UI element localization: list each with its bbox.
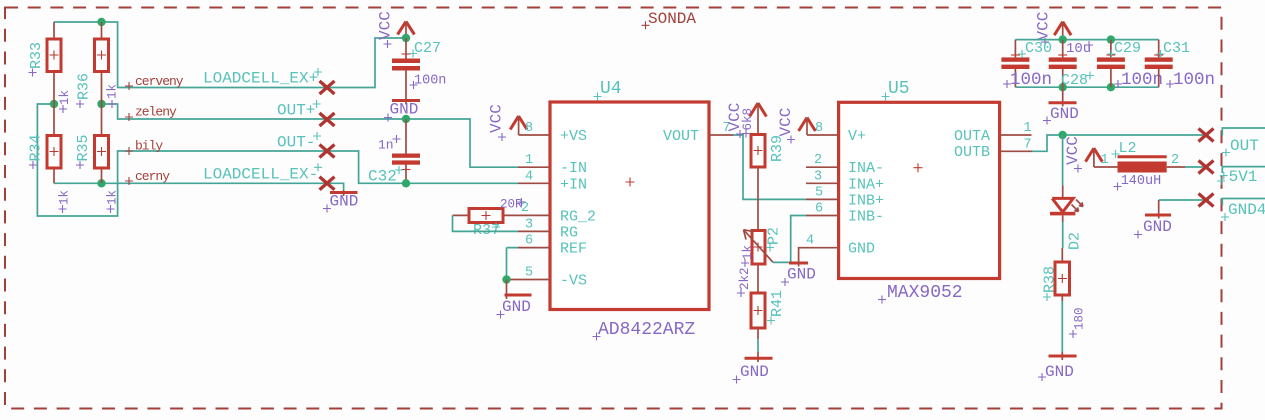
svg-text:cerveny: cerveny	[135, 74, 184, 89]
svg-text:R39: R39	[769, 135, 786, 162]
svg-text:-VS: -VS	[560, 273, 587, 290]
pin 5 -VS	[507, 266, 588, 290]
ground for GND4 net	[1134, 200, 1172, 239]
capacitor C28 10u	[1049, 40, 1094, 89]
svg-text:OUT: OUT	[1230, 137, 1259, 155]
wire: D2 to R38	[1062, 222, 1064, 248]
node: bottom rail C29 junction	[1107, 83, 1115, 91]
wire: left mid node to bily row	[37, 104, 327, 216]
svg-text:3: 3	[525, 217, 533, 232]
svg-text:V+: V+	[848, 128, 866, 145]
svg-text:RG: RG	[560, 225, 578, 242]
node: C32 top on OUT+ wire	[402, 115, 410, 123]
svg-text:U4: U4	[600, 79, 622, 99]
svg-text:5: 5	[525, 266, 533, 281]
resistor R36	[76, 22, 120, 108]
capacitor C30 100n	[1001, 40, 1052, 90]
svg-text:6: 6	[525, 234, 533, 249]
svg-text:-IN: -IN	[560, 160, 587, 177]
wire: cerveny X to VCC node of C27	[327, 38, 406, 88]
svg-text:C32: C32	[368, 168, 397, 186]
svg-text:2: 2	[814, 153, 822, 168]
ground below U4	[497, 280, 532, 319]
pin: P2 bottom to R41 top	[757, 264, 759, 293]
capacitor C29 100n	[1097, 40, 1163, 90]
pin 8 V+	[807, 121, 866, 145]
pin 5 INB+	[806, 185, 884, 209]
node: junction right mid	[97, 100, 105, 108]
svg-text:+VS: +VS	[560, 128, 587, 145]
wire: bily OUT- continues to U4 +IN	[327, 151, 518, 183]
svg-text:1: 1	[1101, 153, 1109, 168]
svg-text:L2: L2	[1119, 140, 1137, 157]
pin 4 +IN	[518, 169, 587, 193]
svg-text:GND: GND	[740, 363, 769, 381]
svg-text:R36: R36	[76, 73, 93, 100]
pin 8 +VS	[519, 121, 587, 145]
svg-text:1k: 1k	[58, 90, 72, 105]
node: junction left mid	[50, 100, 58, 108]
svg-text:LOADCELL_EX+: LOADCELL_EX+	[203, 70, 318, 88]
svg-text:3: 3	[814, 169, 822, 184]
svg-text:100n: 100n	[1173, 70, 1215, 90]
wire: bank top rail	[1015, 39, 1158, 41]
VCC supply above bank	[1035, 12, 1072, 46]
svg-text:VCC: VCC	[377, 11, 395, 40]
svg-text:C29: C29	[1114, 40, 1141, 57]
VCC supply above R39	[726, 103, 766, 138]
svg-text:VCC: VCC	[1035, 12, 1053, 41]
ground for cerny net	[323, 190, 358, 213]
svg-text:1k: 1k	[106, 190, 120, 205]
svg-text:VCC: VCC	[488, 104, 506, 133]
node: C32 bottom on OUT- wire	[402, 179, 410, 187]
net label OUT-	[277, 132, 321, 152]
resistor R34	[28, 104, 72, 213]
capacitor C27 100n	[392, 38, 446, 101]
LED D2	[1050, 186, 1084, 251]
node: bottom rail C28 junction	[1059, 83, 1067, 91]
svg-text:OUT-: OUT-	[277, 134, 315, 152]
svg-text:GND4: GND4	[1228, 201, 1265, 219]
label cerny	[125, 169, 170, 185]
svg-text:INB-: INB-	[848, 209, 884, 226]
svg-text:+IN: +IN	[560, 176, 587, 193]
pin 6 INB-	[806, 202, 884, 226]
svg-text:VCC: VCC	[777, 108, 795, 137]
pin: R39 bottom to P2 top	[757, 167, 759, 231]
wire: cerny X to GND	[327, 183, 344, 190]
svg-text:100n: 100n	[414, 74, 446, 89]
svg-text:REF: REF	[560, 241, 587, 258]
net label +5V1 with flag	[1217, 167, 1265, 186]
wire: REF/-VS to ground	[507, 248, 519, 280]
svg-text:C30: C30	[1025, 40, 1052, 57]
svg-text:RG_2: RG_2	[560, 209, 596, 226]
resistor R39 6k8	[741, 108, 786, 167]
SONDA title	[642, 10, 697, 29]
svg-text:1k: 1k	[58, 190, 72, 205]
svg-text:R38: R38	[1042, 266, 1059, 293]
pin 2 RG_2	[503, 201, 596, 226]
VCC label at output node	[1064, 136, 1082, 172]
VCC supply at U4 +VS	[488, 104, 528, 141]
label cerveny	[125, 74, 184, 90]
svg-text:2: 2	[1171, 153, 1179, 168]
node: REF/-VS junction	[502, 275, 510, 283]
label zeleny	[125, 105, 177, 122]
resistor R41 2k2	[737, 267, 786, 328]
net label GND4 with flag	[1221, 199, 1265, 222]
svg-text:C27: C27	[414, 40, 441, 57]
svg-text:1: 1	[525, 153, 533, 168]
svg-text:4: 4	[525, 169, 533, 184]
wire: L2 to +5V1 pad	[1185, 166, 1206, 168]
pin 3 RG	[518, 217, 578, 241]
svg-text:R35: R35	[75, 134, 92, 161]
svg-text:8: 8	[815, 121, 823, 136]
svg-text:SONDA: SONDA	[648, 10, 696, 28]
svg-text:4: 4	[806, 234, 814, 249]
VCC supply at L2	[1086, 148, 1103, 167]
net label OUT+	[277, 100, 321, 120]
pin 1 OUTA (stub)	[954, 121, 1032, 145]
svg-text:6: 6	[815, 202, 823, 217]
capacitor C31 100n	[1145, 40, 1215, 90]
X pad on bily	[320, 145, 335, 158]
svg-text:GND: GND	[848, 241, 875, 258]
X pad on +5V1	[1199, 161, 1214, 174]
wire: node down to D2	[1062, 135, 1064, 186]
wire: right mid node to zeleny row, OUT+ continues to U4 -IN	[102, 104, 519, 167]
svg-text:bily: bily	[135, 138, 163, 153]
svg-text:1: 1	[1024, 121, 1032, 136]
resistor R38 180	[1042, 248, 1087, 338]
trimmer P2 1k	[741, 227, 783, 267]
svg-text:VCC: VCC	[1064, 136, 1082, 165]
svg-text:8: 8	[525, 121, 533, 136]
svg-text:5: 5	[815, 185, 823, 200]
svg-text:1k: 1k	[106, 84, 120, 99]
svg-text:C28: C28	[1061, 72, 1088, 89]
wire: P2 wiper to INB-	[773, 216, 806, 263]
svg-text:INA+: INA+	[848, 176, 884, 193]
X pad on GND4	[1199, 194, 1214, 207]
svg-text:1k: 1k	[741, 245, 755, 260]
svg-text:180: 180	[1073, 307, 1087, 330]
wire: OUTB joins OUTA rail to OUT pad	[1032, 135, 1206, 151]
svg-text:+5V1: +5V1	[1219, 168, 1257, 186]
X pad on cerveny	[320, 81, 335, 94]
net label OUT with flag	[1222, 128, 1265, 157]
pin 6 REF	[518, 234, 587, 258]
wire: R37 to RG pin	[453, 215, 519, 231]
svg-text:1n: 1n	[378, 138, 394, 153]
pin 1 -IN	[518, 153, 587, 177]
svg-text:GND: GND	[1143, 218, 1172, 236]
svg-text:D2: D2	[1067, 232, 1084, 250]
svg-text:C31: C31	[1163, 40, 1190, 57]
svg-text:OUT+: OUT+	[277, 102, 315, 120]
svg-text:R41: R41	[769, 290, 786, 317]
label bily	[125, 138, 163, 155]
svg-text:LOADCELL_EX-: LOADCELL_EX-	[203, 165, 318, 183]
svg-text:GND: GND	[1050, 105, 1079, 123]
svg-text:P2: P2	[766, 227, 783, 245]
svg-text:VOUT: VOUT	[663, 128, 699, 145]
resistor R37 20R (gain)	[453, 198, 526, 240]
pin 7 OUTB	[954, 137, 1032, 161]
svg-text:R33: R33	[28, 42, 45, 69]
net label LOADCELL_EX+	[203, 68, 322, 88]
svg-text:cerny: cerny	[135, 169, 170, 184]
svg-text:GND: GND	[502, 298, 531, 316]
pin 2 INA- (open)	[806, 153, 884, 177]
ground below R41	[733, 328, 773, 384]
svg-text:zeleny: zeleny	[135, 105, 177, 120]
svg-text:100n: 100n	[1010, 70, 1052, 90]
svg-text:GND: GND	[1045, 363, 1074, 381]
svg-text:20R: 20R	[500, 198, 523, 212]
svg-text:R34: R34	[28, 134, 45, 161]
wire: bridge top node to cerveny row	[54, 22, 327, 88]
pin 4 GND	[799, 234, 875, 259]
X pad on OUT	[1199, 129, 1214, 142]
svg-text:OUTA: OUTA	[954, 128, 990, 145]
inductor L2 140uH	[1094, 140, 1185, 191]
VCC supply above C27	[377, 11, 415, 48]
svg-text:INB+: INB+	[848, 192, 884, 209]
svg-text:2k2: 2k2	[738, 267, 752, 290]
wire: VOUT to INB+ of U5	[734, 135, 806, 199]
pin 7 VOUT	[663, 121, 734, 145]
ground below R38	[1038, 295, 1077, 381]
svg-text:INA-: INA-	[848, 160, 884, 177]
svg-text:GND: GND	[330, 193, 359, 211]
net label LOADCELL_EX-	[203, 163, 322, 183]
svg-text:7: 7	[1024, 137, 1032, 152]
svg-text:140uH: 140uH	[1121, 174, 1162, 189]
ground below C28	[1043, 87, 1079, 124]
ground below U5 pin4	[781, 259, 816, 286]
svg-text:GND: GND	[787, 266, 816, 284]
X pad on zeleny	[320, 113, 335, 126]
node: junction bottom	[97, 179, 105, 187]
svg-text:AD8422ARZ: AD8422ARZ	[598, 320, 695, 340]
wire: GND4 pad wire	[1159, 199, 1206, 201]
svg-text:100n: 100n	[1121, 70, 1163, 90]
IC body U4	[550, 102, 709, 310]
svg-text:6k8: 6k8	[741, 108, 755, 131]
IC body U5	[839, 102, 1000, 278]
node: top rail C29 junction	[1107, 35, 1115, 43]
wire: bridge bottom cerny row	[54, 182, 327, 184]
X pad on cerny	[320, 177, 335, 190]
svg-text:OUTB: OUTB	[954, 144, 990, 161]
svg-text:MAX9052: MAX9052	[887, 283, 963, 303]
svg-text:10u: 10u	[1066, 41, 1091, 57]
node: junction bridge top	[97, 18, 105, 26]
svg-text:U5: U5	[888, 79, 910, 99]
node: output rail to LED	[1058, 131, 1066, 139]
node: VCC/C27 junction	[402, 34, 410, 42]
resistor R35	[75, 104, 120, 213]
wire: bank bottom rail	[1015, 86, 1158, 88]
VCC supply at U5 V+	[777, 108, 815, 144]
resistor R33	[28, 22, 72, 113]
ground below C27	[384, 101, 420, 122]
node: top rail VCC junction	[1059, 35, 1067, 43]
capacitor C32 1n	[368, 119, 420, 186]
pin 3 INA+ (open)	[806, 169, 884, 193]
